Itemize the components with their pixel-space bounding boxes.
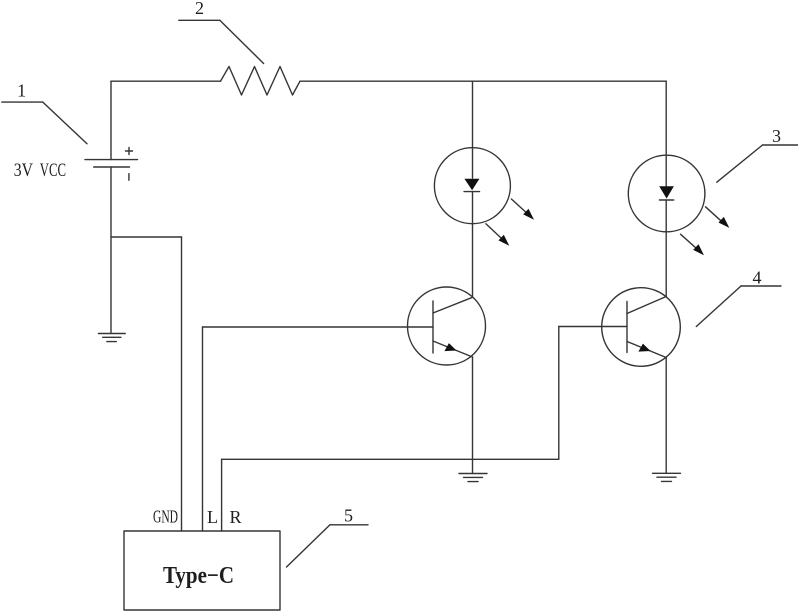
resistor 2	[221, 67, 301, 96]
ground (Q2 emitter)	[653, 473, 681, 481]
wire LED1 cathode to Q1 collector	[472, 192, 474, 298]
transistor Q1 circle	[408, 287, 486, 365]
transistor Q2 emitter	[627, 342, 666, 358]
LED 3 (right) diode	[659, 186, 674, 200]
svg-text:1: 1	[17, 81, 26, 101]
LED 3 (left) emission arrows	[486, 199, 534, 246]
svg-text:3V: 3V	[14, 161, 34, 181]
wire GND branch horizontal	[111, 236, 182, 238]
battery minus tick	[128, 174, 130, 181]
leader 5	[287, 525, 369, 567]
LED 3 (right) emission arrows	[681, 207, 730, 256]
LED 3 (left) circle	[434, 148, 510, 224]
LED 3 (right) circle	[628, 155, 705, 232]
wire L net vertical	[202, 327, 204, 531]
transistor Q1 base bar	[432, 301, 434, 353]
leader 3	[717, 145, 798, 182]
svg-text:Type−C: Type−C	[163, 563, 234, 589]
leader 2	[179, 20, 264, 63]
wire R net vertical riser	[558, 327, 560, 460]
battery plus sign	[126, 148, 133, 155]
transistor Q2 (4) circle	[602, 288, 681, 367]
svg-text:4: 4	[753, 268, 762, 288]
wire LED2 anode drop	[665, 81, 667, 186]
ground (Q1 emitter)	[459, 474, 487, 482]
wire Q1 emitter to ground	[472, 357, 474, 474]
svg-text:R: R	[230, 507, 242, 527]
transistor Q2 collector	[627, 297, 666, 314]
wire Q2 emitter to ground	[665, 358, 667, 474]
wire LED2 cathode to Q2 collector	[665, 200, 667, 297]
wire R net vertical from Type-C	[221, 459, 223, 531]
svg-text:GND: GND	[153, 506, 178, 526]
svg-text:L: L	[207, 507, 218, 527]
wire battery negative lead	[110, 167, 112, 333]
transistor Q1 collector	[433, 297, 473, 313]
transistor Q2 base bar	[626, 302, 628, 353]
svg-text:VCC: VCC	[40, 161, 66, 181]
ground (battery)	[98, 334, 125, 342]
wire GND branch vertical to Type-C	[181, 237, 183, 531]
leader 4	[696, 286, 781, 327]
wire R net horizontal	[222, 458, 559, 460]
transistor Q1 emitter	[433, 341, 473, 357]
wire R net horizontal to Q2 base	[559, 326, 627, 328]
wire LED1 anode drop	[472, 81, 474, 178]
battery 1 (3V VCC)	[85, 160, 138, 167]
wire top rail left segment	[111, 80, 221, 82]
wire L net horizontal to Q1 base	[203, 326, 434, 328]
svg-text:2: 2	[195, 0, 204, 18]
svg-text:5: 5	[344, 506, 353, 526]
Type-C connector 5 box	[124, 531, 280, 610]
leader 1	[2, 102, 87, 144]
LED 3 (left) diode	[464, 179, 479, 192]
wire top rail right segment	[300, 80, 666, 82]
svg-text:3: 3	[772, 126, 781, 146]
wire battery positive lead	[110, 81, 112, 159]
